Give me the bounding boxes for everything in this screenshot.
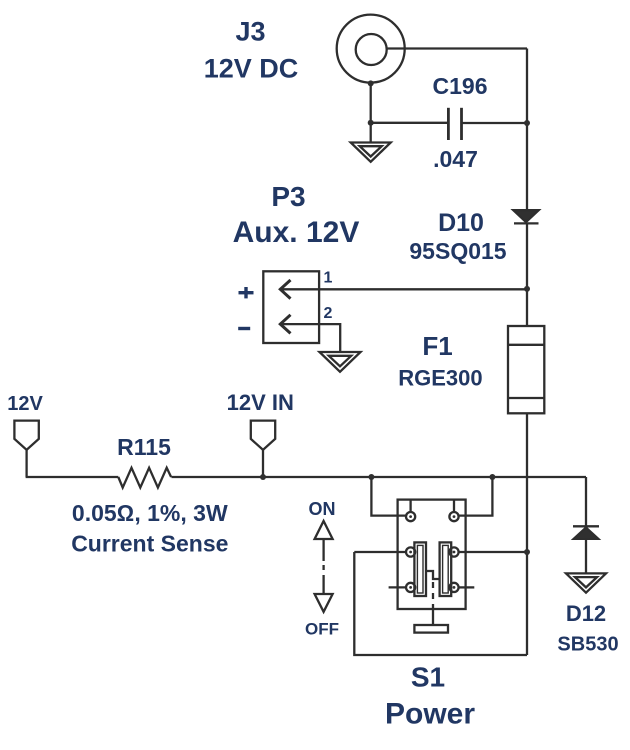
svg-text:D12: D12 <box>566 601 606 626</box>
svg-text:2: 2 <box>324 305 333 322</box>
wire jack sleeve down <box>370 82 372 143</box>
svg-text:S1: S1 <box>411 662 445 693</box>
svg-text:R115: R115 <box>117 434 171 460</box>
connector P3 body <box>263 271 319 343</box>
svg-text:1: 1 <box>324 270 333 287</box>
OFF arrow <box>315 575 333 612</box>
pin 1 wire with arrow <box>280 280 527 299</box>
svg-text:Power: Power <box>385 698 475 731</box>
stub pin BL <box>389 586 406 588</box>
switch base bar <box>414 625 448 633</box>
svg-text:J3: J3 <box>235 17 265 47</box>
pin TR <box>449 500 458 522</box>
svg-text:P3: P3 <box>271 181 305 212</box>
switch actuator link <box>426 571 440 579</box>
switch S1 body <box>398 500 466 609</box>
ground under P3 <box>320 352 361 372</box>
switch shaft solid <box>432 609 434 625</box>
ground under J3 <box>351 143 391 162</box>
port 12V IN <box>251 421 275 477</box>
node 12V IN joins bus <box>260 474 266 480</box>
svg-text:0.05Ω, 1%, 3W: 0.05Ω, 1%, 3W <box>72 500 228 526</box>
stub pin BR <box>459 586 475 588</box>
pin 2 wire with arrow <box>280 315 340 352</box>
wire bus down to switch pin TL <box>371 477 406 516</box>
ON arrow <box>315 521 333 570</box>
port 12V <box>14 421 38 477</box>
node bus to switch top-right <box>489 474 495 480</box>
diode D12 SB530 <box>573 526 599 539</box>
svg-text:ON: ON <box>309 499 336 519</box>
wire bus left segment <box>26 476 119 478</box>
svg-text:C196: C196 <box>433 73 488 99</box>
pin ML <box>406 547 415 556</box>
fuse F1 body <box>508 326 544 413</box>
connector J3 barrel jack <box>337 15 405 83</box>
svg-text:RGE300: RGE300 <box>398 366 482 391</box>
label plus <box>239 287 254 298</box>
capacitor C196 <box>448 108 461 140</box>
wire right rail top segment <box>526 49 528 211</box>
svg-text:12V DC: 12V DC <box>204 54 299 84</box>
svg-text:.047: .047 <box>433 146 478 172</box>
switch contact bar left <box>414 542 426 596</box>
node jack sleeve <box>368 80 374 86</box>
wire left loop down and bottom <box>354 552 527 655</box>
wire jack tip to right rail <box>387 47 527 49</box>
svg-text:12V IN: 12V IN <box>227 390 294 415</box>
svg-text:Current Sense: Current Sense <box>71 531 228 557</box>
svg-text:OFF: OFF <box>305 620 339 639</box>
wire D10 cathode to F1 <box>526 223 528 326</box>
node C196/rail junction <box>524 120 530 126</box>
pin BR <box>449 583 458 592</box>
switch contact bar right <box>440 542 452 596</box>
svg-text:D10: D10 <box>438 209 484 237</box>
pin TL <box>406 500 415 522</box>
node pin1 line joins rail <box>524 286 530 292</box>
wire F1 bottom through bus to switch <box>526 413 528 655</box>
svg-text:12V: 12V <box>7 393 43 415</box>
wire D12 anode to ground <box>585 539 587 574</box>
wire pin ML to left loop <box>354 551 406 553</box>
svg-text:Aux. 12V: Aux. 12V <box>233 216 360 249</box>
label minus <box>238 327 250 330</box>
wire bus middle segment <box>171 476 586 478</box>
wire junction to C196 left plate <box>371 122 449 124</box>
wire bus right turn down to D12 <box>585 477 587 526</box>
wire pin MR to rail <box>459 551 527 553</box>
svg-text:SB530: SB530 <box>557 634 618 656</box>
svg-text:F1: F1 <box>422 331 452 361</box>
diode D10 95SQ015 <box>513 210 538 223</box>
resistor R115 <box>118 468 171 488</box>
pin MR <box>449 547 458 556</box>
switch actuator dashed shaft <box>432 582 434 609</box>
ground under D12 <box>566 573 606 592</box>
pin BL <box>406 583 415 592</box>
wire bus down to switch pin TR <box>459 477 493 516</box>
node jack/C196 junction <box>368 120 374 126</box>
node bus to switch top-left <box>368 474 374 480</box>
svg-text:95SQ015: 95SQ015 <box>409 238 506 264</box>
node rail at pin MR <box>524 549 530 555</box>
wire C196 right plate to rail <box>462 122 528 124</box>
